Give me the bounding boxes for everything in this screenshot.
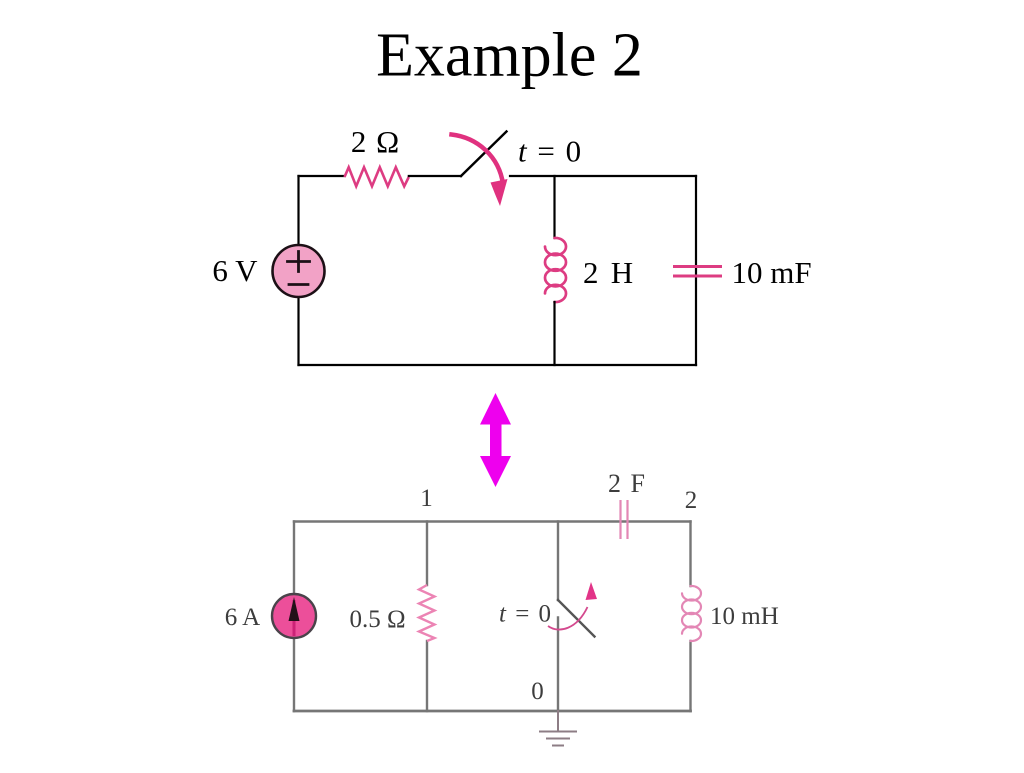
wire: left bottom (source to bottom-left corner) (297, 297, 299, 365)
voltage source minus sign (289, 283, 308, 286)
wire: switch to top-right corner (510, 175, 696, 177)
wire: middle branch inductor to bottom (553, 302, 555, 365)
svg-text:t = 0: t = 0 (499, 601, 551, 628)
svg-text:1: 1 (420, 485, 433, 512)
capacitor C=10mF plates (675, 267, 721, 277)
svg-text:2: 2 (685, 487, 698, 514)
svg-text:6 A: 6 A (225, 604, 260, 631)
inductor L=10mH coil (682, 586, 701, 641)
wire: middle branch above switch (557, 522, 559, 601)
wire: bottom circuit top (294, 520, 691, 522)
switch blade (bottom circuit) (558, 600, 595, 637)
svg-text:t = 0: t = 0 (518, 134, 581, 169)
wire: left side below source (293, 638, 295, 711)
wire: resistor to switch (409, 175, 461, 177)
switch blade (open) (461, 132, 507, 177)
wire: left top (source to top-left corner) (297, 176, 299, 245)
ground bar 2 (547, 738, 569, 740)
inductor L=2H coil (545, 238, 566, 302)
current source I=6A circle (272, 594, 316, 638)
svg-text:2 Ω: 2 Ω (351, 124, 399, 159)
equivalence double arrow (magenta) (480, 393, 511, 487)
switch opening arc arrow (bottom, magenta) (548, 607, 588, 630)
svg-text:2 F: 2 F (608, 469, 645, 498)
switch closing arc arrow (magenta) (452, 135, 504, 185)
voltage source plus sign (288, 252, 310, 272)
current source arrow head (up) (289, 597, 300, 621)
ground bar 1 (540, 731, 576, 733)
capacitor C=2F plates (vertical) (621, 500, 628, 539)
resistor R=2ohm zigzag (345, 167, 409, 186)
switch arrow head (491, 179, 508, 206)
wire: middle branch below switch (557, 618, 559, 712)
wire: node-1 branch above resistor (426, 522, 428, 586)
svg-text:10 mH: 10 mH (710, 603, 779, 630)
wire: bottom circuit bottom (294, 710, 691, 713)
ground stem (557, 711, 559, 731)
wire: node-1 branch below resistor (426, 641, 428, 711)
svg-text:2 H: 2 H (583, 255, 633, 290)
wire: bottom (299, 364, 697, 366)
resistor R=0.5ohm zigzag (vertical) (419, 585, 435, 641)
current source arrow shaft (293, 600, 296, 636)
wire: middle branch top to inductor (553, 176, 555, 238)
wire: right side below inductor (689, 641, 691, 711)
ground bar 3 (553, 745, 563, 747)
bottom switch arrow head (up) (586, 582, 598, 600)
svg-text:10 mF: 10 mF (732, 255, 812, 290)
svg-text:0.5 Ω: 0.5 Ω (349, 606, 405, 633)
wire: right side down through capacitor (695, 176, 697, 365)
wire: left side above source (293, 522, 295, 595)
svg-text:Example 2: Example 2 (376, 22, 643, 90)
svg-text:0: 0 (531, 678, 544, 705)
voltage source V=6V circle (273, 245, 325, 297)
svg-text:6 V: 6 V (212, 253, 258, 288)
wire: top-left segment to resistor (299, 175, 345, 177)
wire: right side above inductor (689, 522, 691, 587)
